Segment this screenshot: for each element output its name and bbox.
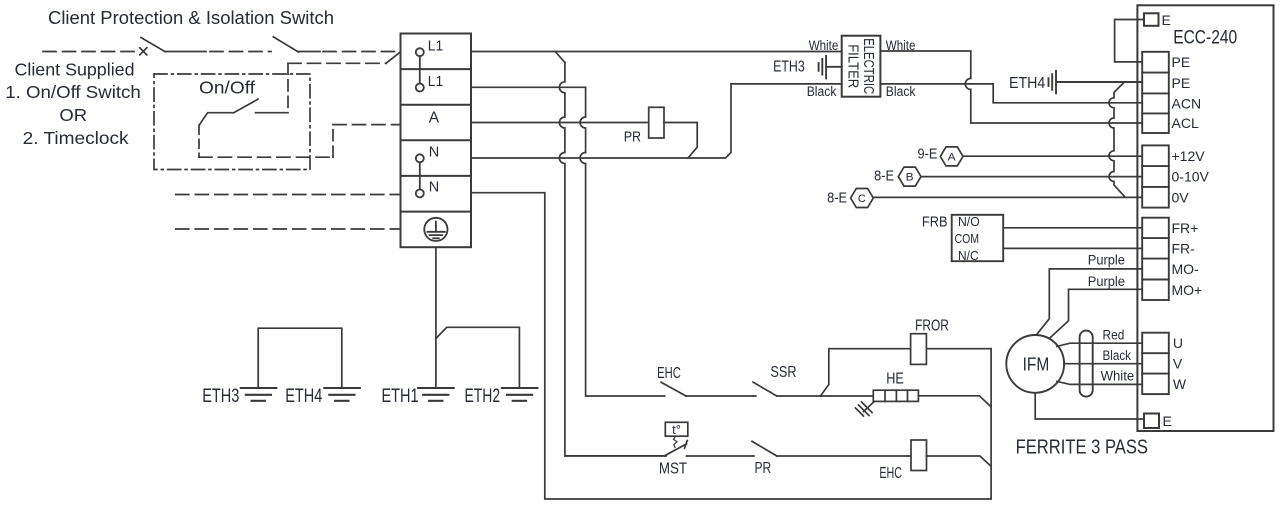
svg-text:ECC-240: ECC-240 bbox=[1173, 27, 1237, 49]
svg-text:Black: Black bbox=[886, 84, 916, 99]
svg-text:8-E: 8-E bbox=[874, 169, 894, 185]
wire: On/Off bypass upper run to L1 bbox=[288, 62, 386, 64]
wire: client neutral (dashed) to terminal N bbox=[176, 194, 401, 196]
motor IFM bbox=[1006, 335, 1064, 393]
earth ETH4 bbox=[1049, 71, 1143, 94]
wire: vertical bus B (L1b) with hops, down to EHC row bbox=[580, 87, 665, 396]
wire: C to 0V bbox=[873, 196, 1142, 198]
node: break mark x bbox=[140, 48, 147, 55]
ground ETH4 bbox=[324, 388, 360, 401]
svg-text:9-E: 9-E bbox=[918, 147, 938, 163]
wire: IFM frame to E terminal bbox=[1035, 393, 1144, 419]
svg-text:FERRITE 3 PASS: FERRITE 3 PASS bbox=[1016, 436, 1148, 459]
svg-text:PR: PR bbox=[755, 460, 772, 477]
terminal group +12V/0-10V/0V bbox=[1142, 145, 1169, 207]
svg-text:Purple: Purple bbox=[1088, 253, 1125, 268]
svg-text:N/O: N/O bbox=[958, 214, 980, 229]
wire: On/Off right lead (dashed vertical) bbox=[287, 63, 289, 112]
earth: HE sheath chassis bbox=[856, 401, 875, 416]
wire: Red IFM to U bbox=[1057, 343, 1142, 346]
terminal group FR/MO bbox=[1142, 218, 1169, 300]
electric filter U2 bbox=[842, 36, 881, 97]
relay coil PR bbox=[649, 107, 664, 138]
wire: PR coil to neutral bbox=[664, 123, 697, 159]
wire: FROR row bbox=[829, 348, 991, 350]
wire: MO- purple to IFM bbox=[1037, 269, 1143, 335]
svg-text:EHC: EHC bbox=[879, 465, 902, 482]
terminal group U/V/W bbox=[1142, 333, 1169, 394]
svg-text:Purple: Purple bbox=[1088, 274, 1125, 289]
svg-text:Client Supplied: Client Supplied bbox=[15, 60, 135, 80]
svg-text:ETH3: ETH3 bbox=[773, 59, 805, 76]
svg-text:1. On/Off Switch: 1. On/Off Switch bbox=[5, 82, 141, 102]
wire: filter White out to ACL bbox=[880, 51, 1142, 123]
svg-text:Black: Black bbox=[1103, 348, 1132, 363]
switch: isolation switch blade 1 bbox=[141, 38, 165, 52]
wire: client supply line L (dashed) bbox=[43, 51, 140, 53]
svg-text:N: N bbox=[429, 180, 439, 196]
wire: PE bond fan vertical with hops to 0V bbox=[1109, 82, 1125, 197]
svg-text:0-10V: 0-10V bbox=[1172, 169, 1210, 185]
svg-text:FROR: FROR bbox=[915, 318, 949, 335]
wire: L1a branch jog down bbox=[555, 52, 565, 63]
wire: A to +12V bbox=[963, 155, 1142, 157]
earth ETH3 at filter bbox=[819, 56, 842, 79]
switch EHC (heater contactor aux) bbox=[661, 382, 686, 396]
wire: HE to right rail bbox=[918, 396, 991, 407]
wire: N2 from TB1 down to bottom rail bbox=[471, 193, 991, 499]
wire: L1b from TB1 bbox=[471, 86, 586, 88]
label: ELECTRIC FILTER (rotated) bbox=[845, 38, 878, 94]
svg-text:Client Protection & Isolation: Client Protection & Isolation Switch bbox=[48, 8, 334, 28]
switch: isolation switch blade 2 bbox=[273, 37, 298, 52]
wire: switch 2 to terminal L1 bbox=[298, 51, 320, 53]
wire: White IFM to W bbox=[1057, 381, 1142, 384]
svg-text:ETH1: ETH1 bbox=[382, 386, 419, 407]
terminal circles and links L1-L1, N-N bbox=[416, 48, 424, 197]
svg-text:8-E: 8-E bbox=[827, 191, 847, 207]
connector B (8-E) bbox=[898, 167, 921, 186]
wire: EHC coil to right rail bbox=[927, 456, 992, 466]
switch: On/Off contact bbox=[256, 112, 289, 114]
svg-text:Black: Black bbox=[807, 84, 837, 99]
ferrite core (3 pass) bbox=[1080, 331, 1093, 397]
svg-text:L1: L1 bbox=[428, 74, 443, 90]
svg-text:COM: COM bbox=[955, 231, 980, 246]
svg-text:W: W bbox=[1173, 376, 1187, 392]
svg-text:+12V: +12V bbox=[1172, 148, 1206, 164]
wire: On/Off left lead bbox=[198, 125, 200, 157]
svg-text:MO+: MO+ bbox=[1172, 282, 1203, 298]
svg-text:MO-: MO- bbox=[1172, 261, 1200, 277]
wire: MO+ purple to IFM bbox=[1050, 289, 1143, 338]
labels: ECC terminals bbox=[1172, 54, 1210, 392]
svg-text:OR: OR bbox=[59, 105, 87, 125]
svg-text:ETH3: ETH3 bbox=[202, 386, 239, 407]
svg-text:White: White bbox=[809, 38, 839, 53]
wire: On/Off bypass lower run to terminal A bbox=[199, 156, 333, 158]
wire: phase A from TB1 to PR coil bbox=[471, 122, 649, 124]
overload relay FROR bbox=[911, 334, 927, 365]
svg-text:FR+: FR+ bbox=[1172, 220, 1199, 236]
svg-text:ETH4: ETH4 bbox=[1009, 75, 1045, 92]
svg-text:IFM: IFM bbox=[1023, 354, 1050, 375]
svg-text:N/C: N/C bbox=[958, 248, 979, 263]
svg-text:E: E bbox=[1162, 12, 1171, 28]
svg-text:PE: PE bbox=[1172, 54, 1191, 70]
terminal E bottom bbox=[1144, 414, 1159, 429]
svg-text:A: A bbox=[429, 110, 440, 127]
wire: E to PE1 bbox=[1115, 20, 1144, 62]
note: Client Supplied source options bbox=[5, 60, 141, 148]
switch PR (relay contact) bbox=[752, 441, 777, 456]
svg-text:White: White bbox=[1101, 368, 1135, 383]
wire: TB1 earth down to ETH1 bbox=[435, 247, 437, 388]
svg-text:ACL: ACL bbox=[1172, 115, 1199, 131]
wire: Black IFM to V bbox=[1064, 363, 1142, 365]
svg-text:HE: HE bbox=[886, 371, 904, 388]
svg-text:ETH2: ETH2 bbox=[465, 386, 501, 407]
wire: L1a from TB1 to filter White bbox=[471, 51, 842, 53]
labels: TB1 row names bbox=[428, 39, 443, 196]
svg-text:MST: MST bbox=[659, 460, 687, 477]
relay contact block FRB bbox=[952, 215, 1004, 261]
ground ETH1 bbox=[418, 388, 454, 401]
svg-text:SSR: SSR bbox=[770, 364, 796, 381]
terminal block TB1 bbox=[401, 34, 472, 248]
wire: PR to EHC coil bbox=[777, 455, 911, 457]
wire: vertical bus A (L1a) with hops, down to MST row bbox=[559, 63, 666, 456]
svg-text:FR-: FR- bbox=[1172, 240, 1196, 256]
boundary: timeclock dash-dot box bbox=[154, 74, 310, 170]
svg-text:FRB: FRB bbox=[922, 215, 948, 231]
svg-text:U: U bbox=[1173, 335, 1183, 351]
wire: branch up to FROR bbox=[821, 349, 829, 396]
svg-text:PR: PR bbox=[624, 129, 642, 146]
svg-text:ACN: ACN bbox=[1172, 95, 1202, 111]
ground ETH2 bbox=[502, 388, 538, 401]
wire: client earth (dashed) to terminal PE bbox=[176, 228, 401, 230]
wire: B to 0-10V bbox=[921, 176, 1142, 178]
ground ETH3 bbox=[241, 388, 276, 401]
svg-text:B: B bbox=[906, 172, 914, 184]
svg-text:A: A bbox=[948, 151, 957, 163]
svg-text:PE: PE bbox=[1172, 75, 1191, 91]
wire: ETH3-ETH4 earth bridge bbox=[258, 328, 342, 388]
svg-text:C: C bbox=[858, 193, 866, 205]
svg-text:V: V bbox=[1173, 355, 1183, 371]
earth symbol in TB1 bbox=[424, 218, 447, 241]
svg-text:Red: Red bbox=[1103, 327, 1125, 342]
wire: SSR to HE bbox=[821, 395, 874, 397]
wire: neutral N from TB1 to filter Black bbox=[471, 84, 842, 158]
wire: branch to ETH2 bbox=[436, 327, 520, 388]
terminal E top bbox=[1144, 13, 1159, 25]
svg-text:On/Off: On/Off bbox=[199, 78, 255, 98]
terminal group PE/PE/ACN/ACL bbox=[1142, 52, 1169, 133]
controller ECC-240 enclosure bbox=[1137, 5, 1273, 431]
svg-text:t°: t° bbox=[672, 422, 681, 437]
switch SSR bbox=[753, 382, 777, 396]
svg-text:0V: 0V bbox=[1172, 189, 1190, 205]
svg-text:N: N bbox=[429, 144, 439, 160]
connector A (9-E) bbox=[940, 147, 963, 166]
svg-text:ETH4: ETH4 bbox=[285, 386, 322, 407]
wire: FRB N/C to FR- bbox=[1003, 247, 1142, 249]
svg-text:L1: L1 bbox=[428, 39, 443, 55]
wire: MST to PR contact bbox=[687, 455, 754, 457]
heating element HE bbox=[873, 371, 918, 402]
wire: FRB N/O to FR+ bbox=[1003, 227, 1142, 229]
connector C (8-E) bbox=[851, 189, 874, 208]
wire: between isolation switches bbox=[165, 51, 206, 53]
svg-text:ELECTRIC: ELECTRIC bbox=[860, 38, 877, 94]
contactor coil EHC bbox=[911, 440, 927, 471]
svg-text:FILTER: FILTER bbox=[845, 44, 862, 88]
svg-text:EHC: EHC bbox=[657, 365, 681, 382]
wire: filter Black out to ACN bbox=[880, 84, 1142, 103]
svg-text:E: E bbox=[1163, 413, 1172, 429]
thermostat MST bbox=[565, 455, 666, 457]
svg-text:2. Timeclock: 2. Timeclock bbox=[23, 128, 129, 148]
